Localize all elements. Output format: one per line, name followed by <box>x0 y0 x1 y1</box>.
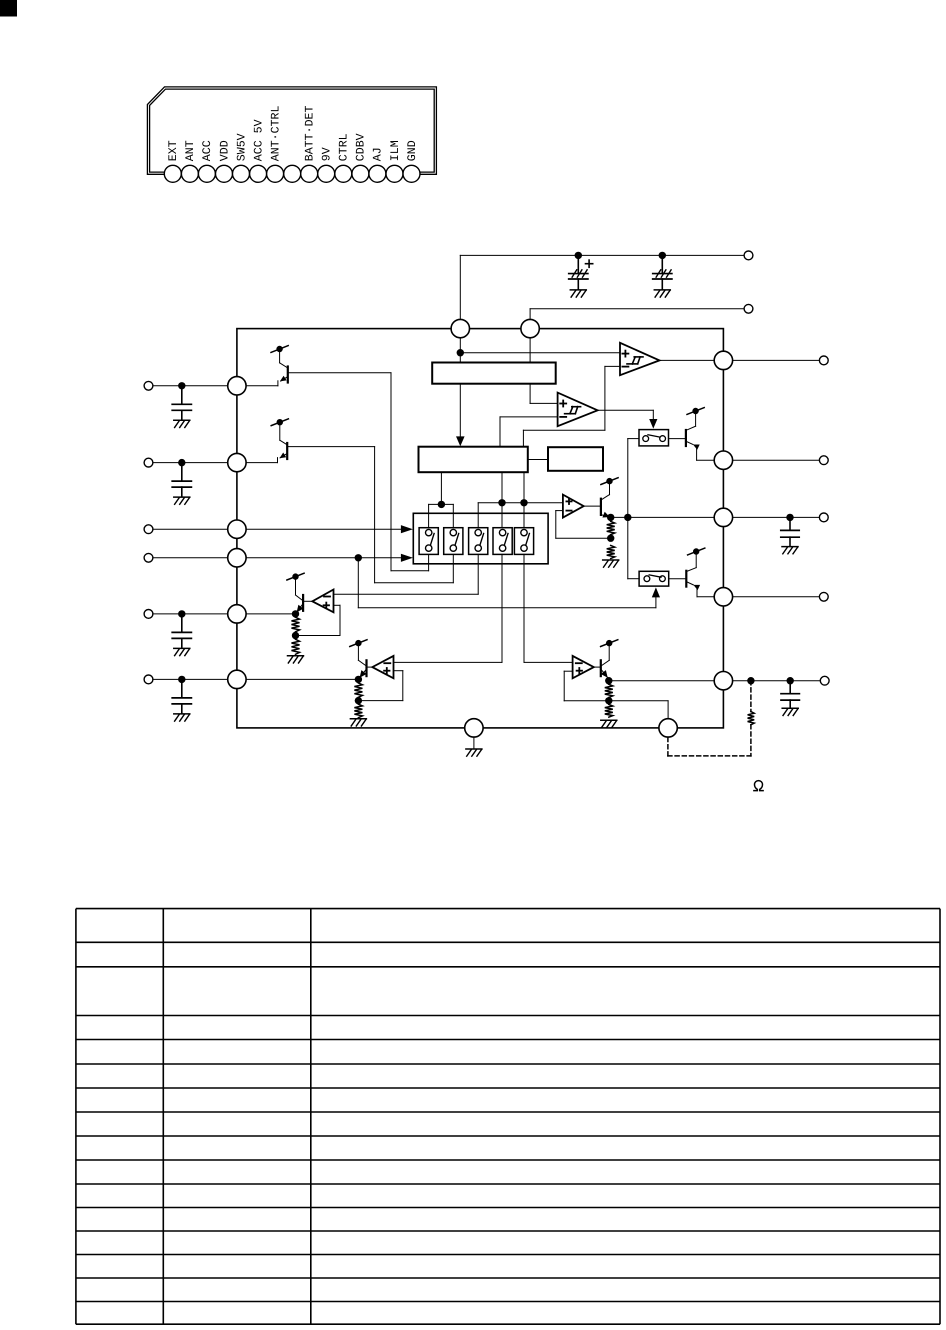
wire Q2 base to bank switch b2 <box>287 447 453 583</box>
node L6 cap tap <box>178 676 185 683</box>
external resistor R-ext (dashed connection) <box>750 681 752 712</box>
wire divider4 to U4 - <box>556 511 611 539</box>
transistor Q5 <box>296 580 304 613</box>
wire S2 left lead <box>628 578 639 580</box>
node L5 cap tap <box>178 610 185 617</box>
analog switch b3 <box>469 528 488 555</box>
wire U4 output to Q8 base <box>584 505 601 507</box>
terminal L5 <box>144 610 153 619</box>
connector pin 13 AJ <box>369 147 386 182</box>
connector pin 4 VDD <box>216 140 233 182</box>
transistor Q6 <box>358 646 366 678</box>
terminal top-1 <box>744 251 753 260</box>
capacitor C-L1 <box>172 386 191 420</box>
node L1 cap tap <box>178 382 185 389</box>
node R5 ext resistor tap <box>747 677 754 684</box>
arrow into switch S1 <box>649 419 657 429</box>
node Q7 emitter <box>605 677 612 684</box>
wire S2 to Q10 base <box>669 578 687 580</box>
page corner marker <box>0 0 17 17</box>
node Q8 emitter <box>607 514 614 521</box>
resistor R4a <box>607 521 615 534</box>
wire Q7 emitter to pin R5 <box>609 680 714 682</box>
wire B2 to bank b1/b2 tops <box>429 472 454 530</box>
wire S1/S2 common to rail <box>627 439 629 579</box>
node divider3 <box>605 697 612 704</box>
connector pin 10 9V <box>318 147 335 182</box>
transistor Q7 <box>601 646 609 678</box>
resistor R1a <box>292 617 300 631</box>
label ohm <box>754 781 763 791</box>
wire block B1 to comparator U3 + <box>530 384 558 404</box>
capacitor C-R3 <box>781 517 799 546</box>
wire terminal-L3 to pin <box>153 528 228 530</box>
capacitor C2 <box>653 255 672 289</box>
IC pin T1 <box>451 319 469 337</box>
supply tick Q5 <box>287 573 304 580</box>
wire S1 to Q9 base <box>669 438 686 440</box>
wire bank b5 to comparator U7 - <box>524 554 573 662</box>
node pin4 branch <box>355 554 362 561</box>
wire divider2 to U6 + <box>358 671 402 701</box>
connector pin 6 ACC 5V <box>250 119 267 182</box>
node comparator U2 + tap <box>457 349 464 356</box>
wire divider1 to U5 + <box>296 605 341 635</box>
arrow Q8 emitter <box>602 512 610 518</box>
connector pin 2 ANT <box>181 140 198 182</box>
node L2 cap tap <box>178 459 185 466</box>
transistor Q2 <box>278 426 288 463</box>
IC pin L2 <box>228 453 246 471</box>
wire pin R5 to terminal <box>733 680 821 682</box>
terminal L6 <box>144 675 153 684</box>
arrow Q2 emitter <box>280 453 287 459</box>
wire pin R4 to terminal <box>733 596 820 598</box>
node Q6 emitter <box>355 676 362 683</box>
capacitor C-L6 <box>172 679 191 713</box>
connector CN outline <box>147 87 436 174</box>
wire pin4 to switch bank <box>246 557 402 559</box>
connector pin 15 GND <box>403 140 420 182</box>
ground R1b <box>288 656 304 663</box>
IC pin L5 <box>228 605 246 623</box>
node R5 cap tap <box>787 677 794 684</box>
capacitor C1 (electrolytic +) <box>569 255 593 289</box>
terminal R1 <box>819 356 828 365</box>
wire divider3 to U7 + <box>564 671 609 701</box>
op-amp U6 <box>368 656 394 678</box>
wire B2 to bank b4 top <box>501 472 503 530</box>
capacitor C-R5 <box>781 681 799 708</box>
terminal L2 <box>144 458 153 467</box>
wire B2-B3 <box>528 459 548 461</box>
node R3 cap tap <box>786 514 793 521</box>
node b5 tap <box>520 499 527 506</box>
wire U2 - to block B2 <box>523 366 619 446</box>
IC pin L1 <box>228 377 246 395</box>
node rail-C1 <box>575 252 582 259</box>
IC U1 boundary <box>237 329 724 728</box>
supply tick Q10 <box>688 548 705 555</box>
transistor Q1 <box>278 352 288 385</box>
wire pin R3 to terminal <box>733 516 820 518</box>
wire B2 to bank b5 top <box>523 472 525 530</box>
connector pin 3 ACC <box>198 140 215 182</box>
terminal R3 <box>819 513 828 522</box>
op-amp U4 <box>563 495 584 518</box>
wire to comparator U2 + <box>460 352 620 354</box>
arrow Q7 emitter <box>601 670 608 678</box>
terminal R4 <box>819 592 828 601</box>
wire top terminal 2 <box>530 309 744 320</box>
wire S1 left lead <box>628 438 639 440</box>
supply tick Q9 <box>687 408 704 415</box>
connector pin 11 CTRL <box>335 133 352 182</box>
switch bank box <box>413 513 548 564</box>
wire pin5 to Q5 emitter <box>246 613 295 615</box>
wire pin6 to Q6 emitter <box>246 678 358 680</box>
node divider2 <box>355 697 362 704</box>
wire terminal-L2 to pin <box>153 462 228 464</box>
arrow into bank row2 <box>401 554 413 562</box>
node divider1 <box>292 632 299 639</box>
terminal R2 <box>819 456 828 465</box>
wire U3 output to switch S1 <box>598 410 654 419</box>
analog switch S1 <box>639 430 669 446</box>
IC pin R4 <box>714 588 732 606</box>
resistor R2b <box>354 704 362 717</box>
wire pin1 to Q1 emitter <box>246 385 278 387</box>
wire bank b3 to comparator U5 - <box>334 554 479 594</box>
supply tick Q8 <box>601 478 618 485</box>
analog switch b5 <box>514 528 533 555</box>
resistor R4b <box>607 546 615 559</box>
IC pin B1 <box>465 719 483 737</box>
op-amp U3 <box>558 393 598 427</box>
connector pin 5 SW5V <box>233 133 250 182</box>
ground R4b <box>603 560 619 567</box>
resistor R3b <box>605 704 613 717</box>
resistor R2a <box>354 683 362 697</box>
resistor R1b <box>292 639 300 654</box>
connector pin 7 ANT·CTRL <box>267 105 284 182</box>
block B3 <box>548 447 603 471</box>
wire pinT1 into block B1 <box>459 338 461 363</box>
IC pin L4 <box>228 549 246 567</box>
supply tick Q1 collector <box>271 346 288 353</box>
capacitor C-L5 <box>172 614 191 648</box>
ground R2b <box>350 719 366 726</box>
supply tick Q7 <box>601 640 618 647</box>
wire terminal-L4 to pin <box>153 557 228 559</box>
wire pinT2 into block B1 <box>529 338 531 363</box>
wire pin4 branch to switch S2 control <box>358 558 656 608</box>
arrow Q10 emitter (pnp) <box>693 585 700 590</box>
supply tick Q2 collector <box>271 419 288 426</box>
wire U3 - to block B2 <box>500 417 558 447</box>
arrow block B1 to block B2 <box>459 384 461 437</box>
wire pin R2 to terminal <box>733 459 820 461</box>
capacitor C-L2 <box>172 463 191 497</box>
arrow into switch S2 <box>652 587 660 597</box>
connector pin 8 <box>284 165 301 182</box>
wire pin R1 to terminal <box>733 359 820 361</box>
node b4 tap <box>498 499 505 506</box>
wire terminal-L6 to pin <box>153 678 228 680</box>
node B2-bank <box>438 501 445 508</box>
wire divider3 to pin B2 <box>609 701 668 719</box>
node Q5 emitter <box>292 610 299 617</box>
wire Q1 base to bank switch b1 <box>288 373 429 571</box>
arrow Q6 emitter <box>360 670 367 678</box>
IC pin T2 <box>521 319 539 337</box>
wire terminal-L1 to pin <box>153 385 228 387</box>
node rail-C2 <box>659 252 666 259</box>
analog switch b2 <box>444 528 463 555</box>
transistor Q8 <box>601 484 610 517</box>
block B1 <box>432 363 556 384</box>
connector pin 9 BATT·DET <box>301 105 318 182</box>
IC pin R2 <box>714 451 732 469</box>
transistor Q10 <box>686 555 714 597</box>
wire bank b4 to comparator U6 - <box>394 554 503 662</box>
resistor R3a <box>605 684 613 697</box>
wire Q8 emitter rail to pin R3 <box>611 516 715 518</box>
node rail-S <box>624 514 631 521</box>
wire pin2 to Q2 emitter <box>246 462 277 464</box>
connector pin 1 EXT <box>164 140 181 182</box>
IC pin L6 <box>228 670 246 688</box>
analog switch S2 <box>639 571 669 586</box>
ground pin B1 <box>473 737 475 749</box>
terminal L1 <box>144 381 153 390</box>
wire terminal-L5 to pin <box>153 613 228 615</box>
arrow Q9 emitter (pnp) <box>693 445 700 450</box>
supply tick Q6 <box>350 640 367 647</box>
wire U2 output to pin R1 <box>660 359 715 361</box>
arrow into bank row1 <box>401 525 413 533</box>
terminal L4 <box>144 553 153 562</box>
analog switch b4 <box>493 528 512 555</box>
ground R3b <box>601 720 617 727</box>
op-amp U2 <box>620 343 660 375</box>
transistor Q9 <box>686 414 714 460</box>
op-amp U5 <box>304 590 333 613</box>
IC pin L3 <box>228 520 246 538</box>
node divider4 <box>607 535 614 542</box>
IC pin B2 <box>659 719 677 737</box>
block B2 <box>419 447 528 473</box>
wire bank b3 top to comparator U4 + <box>478 503 563 530</box>
op-amp U7 <box>573 656 600 678</box>
wire VCC top rail <box>460 255 744 319</box>
terminal R5 <box>820 676 829 685</box>
connector pin 12 CDBV <box>352 133 369 182</box>
wire pin3 to switch bank <box>246 528 402 530</box>
IC pin R3 <box>714 508 732 526</box>
arrow Q5 emitter <box>297 605 304 613</box>
connector pin 14 ILM <box>386 140 403 182</box>
IC pin R5 <box>714 672 732 690</box>
pin description table (empty) <box>76 909 940 1325</box>
IC pin R1 <box>714 351 732 369</box>
terminal L3 <box>144 525 153 534</box>
analog switch b1 <box>419 528 438 555</box>
terminal top-2 <box>744 304 753 313</box>
arrow Q1 emitter <box>280 376 287 382</box>
